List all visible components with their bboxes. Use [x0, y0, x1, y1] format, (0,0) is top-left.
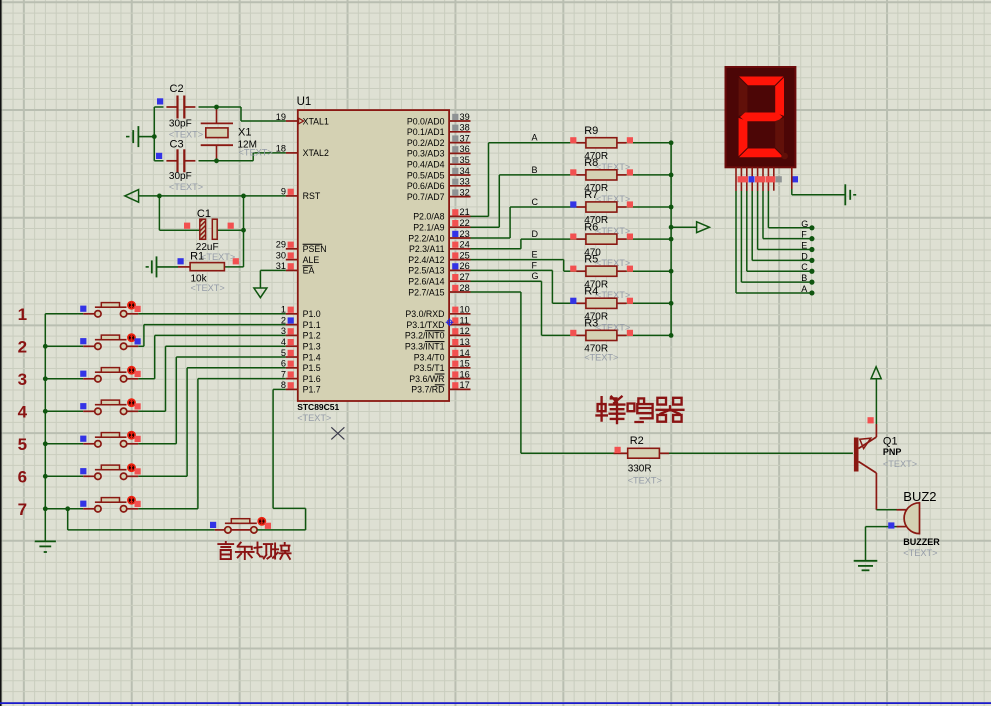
- svg-text:P0.1/AD1: P0.1/AD1: [407, 127, 445, 137]
- svg-text:P2.4/A12: P2.4/A12: [408, 255, 444, 265]
- svg-text:P2.1/A9: P2.1/A9: [413, 223, 444, 233]
- svg-text:21: 21: [460, 207, 470, 217]
- svg-text:P3.4/T0: P3.4/T0: [414, 352, 445, 362]
- svg-text:24: 24: [460, 240, 470, 250]
- svg-text:P3.1/TXD: P3.1/TXD: [406, 320, 444, 330]
- svg-text:B: B: [532, 165, 538, 175]
- svg-text:F: F: [532, 260, 538, 270]
- svg-text:C2: C2: [170, 83, 184, 95]
- svg-text:29: 29: [276, 240, 286, 250]
- svg-text:1: 1: [18, 305, 27, 324]
- svg-text:P2.7/A15: P2.7/A15: [408, 287, 444, 297]
- svg-text:STC89C51: STC89C51: [297, 402, 339, 412]
- svg-text:23: 23: [460, 229, 470, 239]
- svg-text:D: D: [801, 251, 808, 261]
- svg-text:7: 7: [18, 500, 27, 519]
- svg-text:P2.3/A11: P2.3/A11: [409, 244, 445, 254]
- svg-text:34: 34: [460, 166, 470, 176]
- svg-text:10: 10: [460, 305, 470, 315]
- svg-text:BUZZER: BUZZER: [903, 537, 940, 547]
- svg-text:32: 32: [460, 187, 470, 197]
- svg-text:38: 38: [460, 123, 470, 133]
- svg-text:C3: C3: [170, 139, 184, 151]
- svg-text:PNP: PNP: [883, 447, 902, 457]
- svg-text:BUZ2: BUZ2: [903, 489, 936, 504]
- svg-text:P2.6/A14: P2.6/A14: [408, 277, 444, 287]
- svg-text:PSEN: PSEN: [303, 244, 327, 254]
- svg-text:35: 35: [460, 155, 470, 165]
- svg-text:R5: R5: [584, 253, 598, 265]
- svg-text:G: G: [801, 219, 808, 229]
- svg-text:<TEXT>: <TEXT>: [903, 548, 937, 558]
- svg-text:330R: 330R: [628, 463, 652, 474]
- svg-text:B: B: [801, 273, 807, 283]
- svg-text:ALE: ALE: [303, 255, 320, 265]
- svg-text:P0.3/AD3: P0.3/AD3: [407, 149, 445, 159]
- svg-text:XTAL2: XTAL2: [303, 148, 329, 158]
- svg-text:<TEXT>: <TEXT>: [169, 182, 203, 192]
- svg-text:27: 27: [460, 272, 470, 282]
- svg-text:P0.4/AD4: P0.4/AD4: [407, 160, 445, 170]
- svg-text:P3.2/INT0: P3.2/INT0: [405, 331, 445, 341]
- svg-text:30pF: 30pF: [169, 118, 192, 129]
- svg-text:R6: R6: [584, 221, 598, 233]
- svg-text:6: 6: [18, 468, 27, 487]
- svg-text:P3.7/RD: P3.7/RD: [411, 385, 444, 395]
- svg-text:R1: R1: [190, 250, 204, 262]
- svg-text:30pF: 30pF: [169, 171, 192, 182]
- svg-text:P3.0/RXD: P3.0/RXD: [405, 309, 444, 319]
- svg-text:P1.5: P1.5: [303, 363, 321, 373]
- svg-text:11: 11: [460, 315, 470, 325]
- svg-text:P3.3/INT1: P3.3/INT1: [405, 342, 445, 352]
- svg-text:17: 17: [460, 380, 470, 390]
- svg-text:30: 30: [276, 250, 286, 260]
- svg-text:EA: EA: [303, 266, 315, 276]
- svg-text:P1.3: P1.3: [303, 342, 321, 352]
- svg-text:X1: X1: [238, 126, 251, 138]
- svg-text:R2: R2: [630, 435, 644, 447]
- svg-text:A: A: [801, 284, 807, 294]
- svg-text:39: 39: [460, 112, 470, 122]
- svg-text:14: 14: [460, 348, 470, 358]
- svg-text:P3.5/T1: P3.5/T1: [414, 363, 445, 373]
- svg-text:<TEXT>: <TEXT>: [297, 413, 331, 423]
- svg-text:<TEXT>: <TEXT>: [883, 459, 917, 469]
- svg-text:<TEXT>: <TEXT>: [191, 283, 225, 293]
- svg-text:16: 16: [460, 369, 470, 379]
- svg-text:25: 25: [460, 250, 470, 260]
- svg-text:E: E: [532, 250, 538, 260]
- svg-text:<TEXT>: <TEXT>: [239, 148, 273, 158]
- svg-text:P1.1: P1.1: [303, 320, 321, 330]
- svg-text:5: 5: [18, 435, 27, 454]
- svg-text:C: C: [801, 262, 808, 272]
- svg-text:P1.2: P1.2: [303, 331, 321, 341]
- svg-text:G: G: [532, 271, 539, 281]
- svg-text:RST: RST: [303, 191, 321, 201]
- svg-text:37: 37: [460, 133, 470, 143]
- svg-text:P1.6: P1.6: [303, 374, 321, 384]
- svg-text:2: 2: [18, 338, 27, 357]
- svg-text:<TEXT>: <TEXT>: [201, 252, 235, 262]
- svg-text:P0.7/AD7: P0.7/AD7: [407, 192, 445, 202]
- svg-text:33: 33: [460, 177, 470, 187]
- svg-text:13: 13: [460, 337, 470, 347]
- svg-text:R7: R7: [584, 189, 598, 201]
- svg-text:P0.6/AD6: P0.6/AD6: [407, 181, 445, 191]
- svg-text:R3: R3: [584, 318, 598, 330]
- svg-text:C1: C1: [197, 208, 211, 220]
- svg-text:R4: R4: [584, 286, 598, 298]
- svg-text:C: C: [532, 197, 539, 207]
- svg-text:P0.0/AD0: P0.0/AD0: [407, 116, 445, 126]
- svg-text:P0.2/AD2: P0.2/AD2: [407, 138, 445, 148]
- svg-text:<TEXT>: <TEXT>: [628, 476, 662, 486]
- svg-text:3: 3: [18, 370, 27, 389]
- svg-text:15: 15: [460, 359, 470, 369]
- svg-text:F: F: [801, 230, 807, 240]
- svg-text:E: E: [801, 241, 807, 251]
- svg-text:R9: R9: [584, 125, 598, 137]
- svg-text:D: D: [532, 229, 539, 239]
- svg-text:P2.5/A13: P2.5/A13: [408, 266, 444, 276]
- svg-text:36: 36: [460, 144, 470, 154]
- svg-text:Q1: Q1: [883, 436, 898, 448]
- svg-text:P3.6/WR: P3.6/WR: [409, 374, 444, 384]
- svg-text:<TEXT>: <TEXT>: [584, 352, 618, 362]
- svg-text:28: 28: [460, 283, 470, 293]
- svg-text:P1.7: P1.7: [303, 385, 321, 395]
- svg-text:XTAL1: XTAL1: [303, 116, 329, 126]
- svg-text:U1: U1: [297, 96, 312, 108]
- svg-text:P0.5/AD5: P0.5/AD5: [407, 170, 445, 180]
- svg-text:A: A: [532, 133, 538, 143]
- svg-text:22: 22: [460, 218, 470, 228]
- svg-text:4: 4: [18, 403, 28, 422]
- svg-text:P2.0/A8: P2.0/A8: [413, 212, 444, 222]
- svg-text:26: 26: [460, 261, 470, 271]
- svg-text:P2.2/A10: P2.2/A10: [408, 233, 444, 243]
- svg-text:R8: R8: [584, 157, 598, 169]
- svg-text:P1.4: P1.4: [303, 352, 321, 362]
- svg-text:12: 12: [460, 326, 470, 336]
- svg-text:P1.0: P1.0: [303, 309, 321, 319]
